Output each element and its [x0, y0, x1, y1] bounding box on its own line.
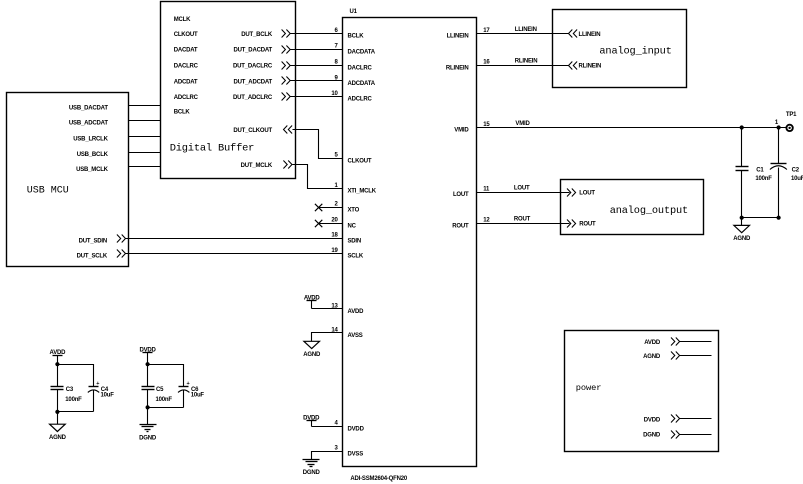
- svg-text:NC: NC: [348, 223, 357, 229]
- port ROUT on analog_output: [567, 220, 596, 228]
- power flag AVDD at U1 pin 13: [304, 296, 321, 309]
- wire DUT_DACLRC (Digital Buffer to U1 pin 8): [291, 65, 343, 67]
- port DACDAT on Digital Buffer (left): [174, 48, 198, 54]
- port AVDD on power block: [644, 338, 679, 347]
- ground DGND below C5: [139, 408, 157, 442]
- wire VMID (U1 pin 15 to TP1) with net label: [477, 121, 787, 128]
- svg-text:power: power: [576, 383, 602, 393]
- svg-text:10uF: 10uF: [191, 393, 205, 399]
- block Digital Buffer: [161, 2, 296, 179]
- ground AGND below C1/C2: [733, 218, 751, 243]
- ground DGND at U1 pin 3: [303, 460, 321, 477]
- U1 pin 15 VMID: [454, 122, 490, 134]
- svg-text:AVDD: AVDD: [644, 340, 661, 346]
- svg-text:AGND: AGND: [643, 354, 661, 360]
- power flag DVDD above C5: [139, 348, 156, 365]
- wire DUT_BCLK (Digital Buffer to U1 pin 6): [291, 33, 343, 35]
- no-connect X on U1 pin 20 NC: [315, 220, 343, 227]
- svg-text:SDIN: SDIN: [348, 239, 362, 245]
- wire AVDD node to C4 branch: [58, 365, 94, 387]
- junction at AVDD/C3 top: [55, 362, 59, 366]
- wire LOUT (U1 pin 11 to analog_output) with net label: [477, 186, 570, 193]
- svg-text:ADCLRC: ADCLRC: [174, 95, 199, 101]
- U1 pin 18 SDIN: [331, 233, 361, 245]
- svg-text:DGND: DGND: [643, 433, 661, 439]
- wire DUT_DACDAT (Digital Buffer to U1 pin 7): [291, 49, 343, 51]
- port DUT_DACLRC on Digital Buffer (out): [233, 62, 290, 70]
- capacitor C4 10uF (polarized): [88, 381, 114, 412]
- svg-text:11: 11: [483, 186, 490, 192]
- U1 pin 4 DVDD: [335, 421, 365, 433]
- port ADCLRC on Digital Buffer (left): [174, 95, 199, 101]
- U1 pin 10 ADCLRC: [331, 91, 372, 103]
- svg-text:DGND: DGND: [139, 435, 157, 441]
- svg-text:TP1: TP1: [786, 112, 797, 118]
- wire U1 pin 3 DVSS to DGND: [312, 452, 343, 460]
- ground AGND below C3: [49, 412, 67, 442]
- port USB_MCLK on USB MCU: [76, 167, 109, 173]
- svg-text:LOUT: LOUT: [514, 186, 530, 192]
- svg-text:10: 10: [331, 91, 338, 97]
- svg-text:LLINEIN: LLINEIN: [447, 34, 469, 40]
- IC U1 ADI-SSM2604-QFN20: [343, 9, 477, 482]
- svg-text:LOUT: LOUT: [453, 192, 469, 198]
- U1 pin 12 ROUT: [452, 218, 490, 230]
- svg-text:XTI_MCLK: XTI_MCLK: [348, 189, 377, 195]
- wire DVDD stub inside power block: [680, 418, 712, 420]
- U1 pin 19 SCLK: [331, 248, 363, 260]
- svg-text:CLKOUT: CLKOUT: [174, 32, 198, 38]
- svg-text:DUT_MCLK: DUT_MCLK: [241, 163, 273, 169]
- svg-text:12: 12: [483, 218, 490, 224]
- capacitor C1 100nF: [736, 128, 773, 218]
- ground AGND at U1 pin 14: [303, 341, 321, 358]
- wire DVDD node to C6 branch: [148, 365, 184, 387]
- svg-text:DUT_DACLRC: DUT_DACLRC: [233, 64, 273, 70]
- port AGND on power block: [643, 352, 679, 361]
- svg-text:RLINEIN: RLINEIN: [446, 65, 469, 71]
- U1 pin 20 NC: [331, 218, 356, 230]
- svg-text:ADCDATA: ADCDATA: [348, 81, 376, 87]
- svg-text:USB_DACDAT: USB_DACDAT: [69, 106, 108, 112]
- svg-text:AVSS: AVSS: [348, 333, 363, 339]
- svg-text:3: 3: [335, 446, 339, 452]
- svg-text:AGND: AGND: [303, 352, 321, 358]
- port DUT_DACDAT on Digital Buffer (out): [233, 46, 290, 54]
- svg-text:16: 16: [483, 60, 490, 66]
- wire DUT_SDIN (USB MCU to U1 SDIN): [126, 238, 343, 240]
- capacitor C3 100nF: [51, 387, 83, 412]
- svg-text:C3: C3: [66, 387, 74, 393]
- svg-text:DUT_SCLK: DUT_SCLK: [77, 254, 108, 260]
- svg-text:5: 5: [335, 153, 339, 159]
- wire AVDD stub inside power block: [680, 341, 712, 343]
- svg-text:LLINEIN: LLINEIN: [515, 27, 537, 33]
- svg-text:100nF: 100nF: [156, 397, 173, 403]
- port USB_ADCDAT on USB MCU: [69, 121, 108, 127]
- svg-text:USB MCU: USB MCU: [27, 185, 69, 196]
- svg-text:DVDD: DVDD: [348, 426, 365, 432]
- no-connect X on U1 pin 2 XTO: [315, 204, 343, 211]
- port DUT_MCLK on Digital Buffer (out): [241, 161, 292, 170]
- svg-text:CLKOUT: CLKOUT: [348, 158, 372, 164]
- wire DUT_SCLK (USB MCU to U1 SCLK): [126, 253, 343, 255]
- svg-text:C5: C5: [156, 387, 164, 393]
- wire USB_LRCLK (USB MCU to Digital Buffer): [129, 136, 161, 138]
- svg-text:10uF: 10uF: [791, 176, 803, 182]
- port DVDD on power block: [644, 415, 680, 424]
- U1 pin 2 XTO: [335, 202, 360, 214]
- block analog_input: [553, 10, 687, 88]
- wire USB_MCLK (USB MCU to Digital Buffer): [129, 166, 161, 168]
- svg-text:ROUT: ROUT: [514, 217, 531, 223]
- capacitor C6 10uF (polarized): [178, 381, 204, 408]
- port DUT_SDIN on USB MCU: [79, 235, 126, 245]
- U1 pin 6 BCLK: [335, 28, 365, 40]
- port DUT_ADCLRC on Digital Buffer (out): [233, 93, 290, 101]
- svg-text:DVDD: DVDD: [644, 417, 661, 423]
- svg-text:AGND: AGND: [49, 435, 67, 441]
- svg-text:DUT_SDIN: DUT_SDIN: [79, 239, 107, 245]
- svg-text:DUT_DACDAT: DUT_DACDAT: [233, 48, 272, 54]
- svg-text:LLINEIN: LLINEIN: [579, 32, 601, 38]
- svg-text:LOUT: LOUT: [579, 190, 595, 196]
- wire C5/C6 bottom join: [148, 407, 184, 409]
- wire USB_BCLK (USB MCU to Digital Buffer): [129, 152, 161, 154]
- power flag AVDD above C3: [50, 350, 67, 365]
- wire LLINEIN (U1 pin 17 to analog_input) with net label: [477, 27, 569, 34]
- port DUT_ADCDAT on Digital Buffer (out): [233, 77, 290, 86]
- svg-text:DUT_BCLK: DUT_BCLK: [241, 32, 273, 38]
- port DGND on power block: [643, 431, 679, 439]
- svg-text:DUT_CLKOUT: DUT_CLKOUT: [233, 128, 272, 134]
- junction at C2 bottom: [777, 216, 781, 220]
- svg-text:DUT_ADCDAT: DUT_ADCDAT: [233, 79, 272, 85]
- wire DUT_ADCDAT (Digital Buffer to U1 pin 9): [291, 80, 343, 82]
- U1 pin 17 LLINEIN: [447, 28, 491, 40]
- svg-text:RLINEIN: RLINEIN: [515, 59, 538, 65]
- svg-text:DACLRC: DACLRC: [174, 64, 199, 70]
- power flag DVDD at U1 pin 4: [303, 415, 320, 426]
- wire USB_DACDAT (USB MCU to Digital Buffer): [129, 105, 161, 107]
- svg-text:C2: C2: [792, 167, 800, 173]
- port ADCDAT on Digital Buffer (left): [174, 79, 198, 85]
- junction at C1 bottom: [740, 216, 744, 220]
- U1 pin 14 AVSS: [331, 327, 362, 339]
- svg-text:U1: U1: [350, 9, 358, 15]
- port DUT_CLKOUT on Digital Buffer (in): [233, 126, 292, 134]
- svg-text:RLINEIN: RLINEIN: [579, 64, 602, 70]
- wire DUT_MCLK (Digital Buffer to U1 XTI_MCLK pin 1): [293, 165, 343, 189]
- block USB MCU: [7, 93, 129, 267]
- port LLINEIN on analog_input: [569, 30, 601, 38]
- wire RLINEIN (U1 pin 16 to analog_input) with net label: [477, 59, 569, 66]
- svg-text:ADI-SSM2604-QFN20: ADI-SSM2604-QFN20: [350, 476, 407, 482]
- wire DUT_ADCLRC (Digital Buffer to U1 pin 10): [291, 96, 343, 98]
- svg-text:ADCLRC: ADCLRC: [348, 97, 373, 103]
- svg-text:DVSS: DVSS: [348, 451, 364, 457]
- U1 pin 11 LOUT: [453, 186, 490, 198]
- svg-text:20: 20: [331, 218, 338, 224]
- port USB_DACDAT on USB MCU: [69, 106, 108, 112]
- svg-text:19: 19: [331, 248, 338, 254]
- port DACLRC on Digital Buffer (left): [174, 64, 199, 70]
- svg-text:ROUT: ROUT: [452, 223, 469, 229]
- wire ROUT (U1 pin 12 to analog_output) with net label: [477, 217, 570, 224]
- wire C1/C2 bottom to AGND: [742, 217, 779, 219]
- svg-text:BCLK: BCLK: [348, 34, 365, 40]
- svg-text:C1: C1: [756, 167, 764, 173]
- svg-text:DACLRC: DACLRC: [348, 65, 373, 71]
- svg-text:USB_MCLK: USB_MCLK: [76, 167, 109, 173]
- U1 pin 13 AVDD: [331, 303, 364, 315]
- svg-text:VMID: VMID: [515, 121, 530, 127]
- junction at DVDD/C5 top: [146, 362, 150, 366]
- svg-text:8: 8: [335, 60, 339, 66]
- svg-text:ADCDAT: ADCDAT: [174, 79, 198, 85]
- svg-text:MCLK: MCLK: [174, 17, 191, 23]
- block analog_output: [561, 180, 704, 235]
- svg-text:USB_LRCLK: USB_LRCLK: [73, 137, 108, 143]
- wire DVDD flag to U1 pin 4: [312, 426, 343, 428]
- port CLKOUT on Digital Buffer (left): [174, 32, 198, 38]
- wire AGND stub inside power block: [680, 355, 712, 357]
- U1 pin 7 DACDATA: [335, 44, 376, 56]
- junction at C2 top on VMID: [777, 125, 781, 129]
- test point TP1 pin 1: [775, 112, 797, 131]
- junction at C5 bottom: [146, 405, 150, 409]
- svg-text:BCLK: BCLK: [174, 110, 191, 116]
- wire USB_ADCDAT (USB MCU to Digital Buffer): [129, 120, 161, 122]
- port RLINEIN on analog_input: [569, 62, 602, 70]
- svg-text:SCLK: SCLK: [348, 254, 364, 260]
- U1 pin 1 XTI_MCLK: [335, 183, 377, 195]
- port BCLK on Digital Buffer (left): [174, 110, 191, 116]
- svg-text:XTO: XTO: [348, 207, 360, 213]
- U1 pin 3 DVSS: [335, 446, 364, 458]
- junction at C3 bottom: [55, 410, 59, 414]
- wire C3/C4 bottom join: [58, 411, 94, 413]
- svg-text:analog_input: analog_input: [599, 45, 671, 57]
- svg-text:AVDD: AVDD: [348, 309, 365, 315]
- port USB_BCLK on USB MCU: [77, 152, 109, 158]
- svg-text:7: 7: [335, 44, 339, 50]
- U1 pin 5 CLKOUT: [335, 153, 372, 165]
- wire DGND stub inside power block: [680, 434, 712, 436]
- svg-text:DACDAT: DACDAT: [174, 48, 198, 54]
- svg-text:DACDATA: DACDATA: [348, 50, 376, 56]
- port USB_LRCLK on USB MCU: [73, 137, 108, 143]
- svg-text:1: 1: [775, 120, 779, 126]
- svg-text:DGND: DGND: [303, 470, 321, 476]
- svg-text:100nF: 100nF: [65, 397, 82, 403]
- U1 pin 16 RLINEIN: [446, 60, 490, 72]
- svg-text:2: 2: [335, 202, 339, 208]
- port DUT_SCLK on USB MCU: [77, 250, 126, 260]
- svg-text:USB_BCLK: USB_BCLK: [77, 152, 109, 158]
- svg-text:AGND: AGND: [733, 236, 751, 242]
- U1 pin 8 DACLRC: [335, 60, 373, 72]
- port MCLK on Digital Buffer (left): [174, 17, 191, 23]
- svg-text:ROUT: ROUT: [579, 222, 596, 228]
- svg-text:100nF: 100nF: [755, 176, 772, 182]
- wire DUT_CLKOUT (U1 CLKOUT pin 5 to Digital Buffer): [293, 130, 343, 159]
- capacitor C5 100nF: [142, 387, 173, 408]
- svg-text:10uF: 10uF: [101, 393, 115, 399]
- port LOUT on analog_output: [567, 189, 595, 197]
- svg-text:USB_ADCDAT: USB_ADCDAT: [69, 121, 108, 127]
- wire AVDD flag to U1 pin 13: [312, 308, 343, 310]
- svg-text:VMID: VMID: [454, 128, 469, 134]
- svg-text:18: 18: [331, 233, 338, 239]
- block power: [565, 331, 719, 452]
- capacitor C2 10uF (polarized): [770, 128, 803, 218]
- port DUT_BCLK on Digital Buffer (out): [241, 30, 290, 38]
- wire U1 pin 14 AVSS to AGND: [312, 333, 343, 342]
- svg-text:Digital Buffer: Digital Buffer: [170, 142, 255, 154]
- svg-text:4: 4: [335, 421, 339, 427]
- junction at C1 top on VMID: [740, 125, 744, 129]
- svg-text:DUT_ADCLRC: DUT_ADCLRC: [233, 95, 273, 101]
- svg-text:analog_output: analog_output: [610, 205, 688, 217]
- U1 pin 9 ADCDATA: [335, 75, 376, 87]
